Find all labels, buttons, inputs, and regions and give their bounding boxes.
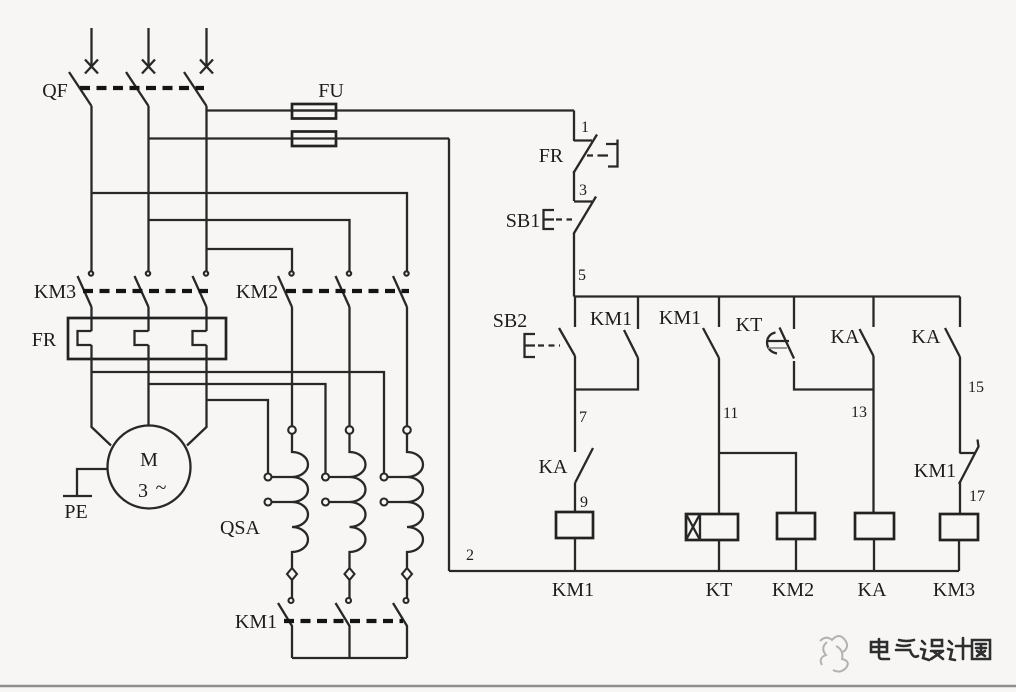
QSA column 3 <box>381 307 424 603</box>
wire motor to PE <box>77 469 108 495</box>
SB1 actuator <box>544 210 555 229</box>
FR trip dashes <box>587 154 604 156</box>
coil KM2 <box>777 513 815 539</box>
wire L1 vertical QF to KM3 <box>90 106 92 272</box>
wire L3 to fuse 1 <box>207 109 293 111</box>
contactor KM1 pole 3 <box>393 603 407 658</box>
wire L2 to fuse 2 <box>149 137 293 139</box>
tap circle upper <box>265 474 272 481</box>
KM2 linkage dashed bar <box>286 289 409 293</box>
svg-text:3: 3 <box>579 182 587 199</box>
supply line L2 with breaker cross <box>142 28 155 74</box>
wire phase W tap feed to QSA column 1 <box>207 400 269 474</box>
计 <box>948 638 970 660</box>
svg-text:11: 11 <box>723 405 738 422</box>
contactor KM2 pole 2 <box>336 271 352 307</box>
wire fuse 1 to control node 1 <box>336 109 574 111</box>
svg-text:17: 17 <box>969 488 985 505</box>
svg-text:KM1: KM1 <box>914 460 956 482</box>
svg-text:KA: KA <box>831 326 860 348</box>
stop button SB1 (NC) <box>544 197 597 235</box>
wire phase U tap feed to QSA column 3 <box>92 372 385 474</box>
svg-text:7: 7 <box>579 409 587 426</box>
wire KM3 pole3 into FR <box>205 307 207 331</box>
SB2 actuator <box>525 334 536 357</box>
svg-text:1: 1 <box>581 119 589 136</box>
contactor KM3 pole 1 <box>78 271 94 307</box>
wire FR to SB1 <box>573 171 575 201</box>
svg-text:M: M <box>140 449 158 471</box>
wire phase U below FR to motor <box>92 345 112 446</box>
wire KM1 NC to coil KM3 <box>959 481 961 514</box>
wire L3 feed to KM2 pole 1 <box>207 249 293 272</box>
wire KM3 pole2 into FR <box>147 307 149 331</box>
svg-text:KA: KA <box>858 579 887 601</box>
svg-text:KM3: KM3 <box>34 281 76 303</box>
wire KM2 pole1 down <box>291 307 293 426</box>
wire L3 vertical QF to KM3 <box>205 106 207 272</box>
diamond <box>287 568 297 580</box>
svg-text:SB1: SB1 <box>506 210 540 232</box>
FR heater element 3 <box>193 331 207 345</box>
wire SB2 to KA <box>574 356 576 450</box>
wire L1 feed to KM2 pole 3 <box>92 193 408 272</box>
wire KM3 pole1 into FR <box>90 307 92 331</box>
svg-text:KT: KT <box>706 579 733 601</box>
supply line L3 with breaker cross <box>200 28 213 74</box>
svg-text:KM2: KM2 <box>772 579 814 601</box>
wire coil KM1 to bottom bus <box>574 538 576 571</box>
svg-text:~: ~ <box>156 477 167 499</box>
coil KM3 <box>940 514 978 540</box>
contactor KM1 pole 1 <box>278 603 292 658</box>
svg-text:3: 3 <box>138 480 148 502</box>
wire L2 vertical QF to KM3 <box>147 106 149 272</box>
breaker QF pole 3 blade <box>184 72 207 106</box>
wire KA to coil <box>574 483 576 512</box>
svg-text:KM1: KM1 <box>235 611 277 633</box>
svg-text:SB2: SB2 <box>493 310 527 332</box>
FR heater element 2 <box>135 331 149 345</box>
contactor KM3 pole 3 <box>193 271 209 307</box>
star point bus <box>292 657 407 659</box>
bottom rule <box>0 685 1016 687</box>
svg-text:QSA: QSA <box>220 517 261 539</box>
svg-text:5: 5 <box>578 267 586 284</box>
svg-text:FR: FR <box>539 145 564 167</box>
breaker QF pole 2 blade <box>126 72 149 106</box>
svg-text:9: 9 <box>580 494 588 511</box>
svg-text:FU: FU <box>318 80 344 102</box>
KM3 linkage dashed bar <box>83 289 208 293</box>
thermal relay FR box <box>68 318 226 359</box>
FR heater element 1 <box>78 331 92 345</box>
thermal contact FR (NC) <box>574 135 618 174</box>
interlock contact KM1 (NC) <box>959 440 979 485</box>
branch 1: start button SB2 (NO) <box>574 297 576 328</box>
svg-text:13: 13 <box>851 404 867 421</box>
QSA column 2 <box>322 307 366 603</box>
wire phase W below FR to motor <box>187 345 207 446</box>
wire coil KM2 to bottom bus <box>795 539 797 571</box>
supply line L1 with breaker cross <box>85 28 98 74</box>
contactor KM1 pole 2 <box>336 603 350 658</box>
logo text 电气设计圈 <box>871 638 990 660</box>
wire node 11 to KM2 coil branch <box>719 453 796 513</box>
svg-text:KA: KA <box>912 326 941 348</box>
wire KT contact to node 13 <box>794 361 874 390</box>
wire SB1 to top bus <box>573 233 575 297</box>
logo icon <box>820 636 848 672</box>
QF linkage dashed bar <box>80 86 204 90</box>
svg-text:KM1: KM1 <box>552 579 594 601</box>
fuse FU element 1 <box>292 109 336 111</box>
wire phase V tap feed to QSA column 2 <box>149 384 326 474</box>
wire coil KT to bottom bus <box>718 540 720 571</box>
电 <box>871 639 889 659</box>
气 <box>896 640 918 657</box>
wire to KM1 contact <box>291 580 293 598</box>
wire coil KA to bottom bus <box>873 539 875 571</box>
wire KA contact to coil KA <box>872 356 874 513</box>
relay contact KA (NO) branch 1 <box>575 448 593 483</box>
wire node 1 drop <box>573 111 575 142</box>
bottom control bus <box>449 570 959 572</box>
winding <box>292 434 308 568</box>
svg-text:2: 2 <box>466 547 474 564</box>
branch 2: contact KM1 (NO) <box>718 297 720 328</box>
svg-text:KM3: KM3 <box>933 579 975 601</box>
tap circle lower <box>265 499 272 506</box>
ground PE bar <box>63 495 92 497</box>
wire coil KM3 to bottom bus <box>958 540 960 571</box>
self hold contact KM1 (NO) <box>575 297 638 390</box>
SB2 dashes <box>538 344 560 346</box>
wire phase V below FR to motor <box>147 345 149 426</box>
wire node 2 drop <box>448 139 450 572</box>
wire fuse 2 to node 2 drop <box>336 137 449 139</box>
QSA column 1 <box>265 307 309 603</box>
branch 4: relay contact KA (NO) <box>872 297 874 328</box>
contactor KM2 pole 1 <box>278 271 294 307</box>
wire KM1 contact down <box>718 358 720 514</box>
wire L2 feed to KM2 pole 2 <box>149 220 350 272</box>
svg-text:KM1: KM1 <box>590 308 632 330</box>
coil KM1 <box>556 512 593 538</box>
KM1 linkage dashed bar <box>284 619 403 623</box>
KT delay symbol <box>767 333 790 354</box>
FR trip element bracket <box>603 140 618 167</box>
branch 5: relay contact KA (NO) <box>959 297 961 328</box>
branch 3: time contact KT (NO delayed) <box>793 297 795 330</box>
contactor KM2 pole 3 <box>393 271 409 307</box>
svg-text:KM2: KM2 <box>236 281 278 303</box>
motor M circle <box>108 426 191 509</box>
svg-text:KT: KT <box>736 314 763 336</box>
svg-text:PE: PE <box>64 501 87 523</box>
svg-text:QF: QF <box>42 80 68 102</box>
breaker QF pole 1 blade <box>69 72 92 106</box>
圈 <box>972 640 990 659</box>
top control bus <box>574 295 960 297</box>
svg-text:KA: KA <box>539 456 568 478</box>
coil KA <box>855 513 894 539</box>
fuse FU element 2 <box>292 132 336 147</box>
coil KT with delay box <box>686 514 738 540</box>
terminal circle <box>288 426 296 434</box>
wire KA to KM1 NC <box>959 357 961 453</box>
svg-text:15: 15 <box>968 379 984 396</box>
设 <box>921 640 943 660</box>
contactor KM3 pole 2 <box>135 271 151 307</box>
svg-text:FR: FR <box>32 329 57 351</box>
svg-text:KM1: KM1 <box>659 307 701 329</box>
SB1 dashes <box>556 218 572 220</box>
